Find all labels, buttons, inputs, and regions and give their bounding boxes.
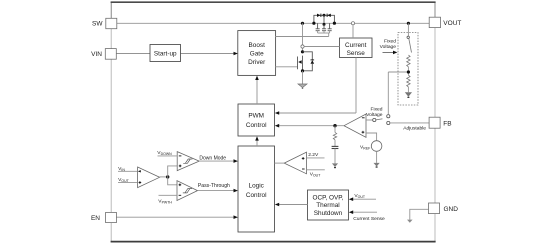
transistor Q1 (isolation FET left) bbox=[316, 23, 320, 31]
block PWM Control bbox=[238, 104, 275, 136]
wire gate link of Q1/Q2 bbox=[318, 31, 330, 37]
svg-text:Down Mode: Down Mode bbox=[199, 155, 226, 161]
svg-text:Sense: Sense bbox=[347, 50, 366, 57]
junction VOUT rail to divider bbox=[407, 22, 410, 25]
wire selector blade bbox=[376, 119, 383, 120]
op-amp error amplifier bbox=[344, 114, 366, 137]
svg-text:Current Sense: Current Sense bbox=[353, 216, 385, 222]
wire VOUT sense stub bbox=[307, 169, 325, 171]
resistor divider R1 bbox=[407, 55, 410, 67]
wire error amp inverting input to selector bbox=[366, 119, 373, 121]
ground (compensation network) bbox=[332, 149, 338, 169]
junction Q3 source bbox=[301, 69, 304, 72]
wire Current Sense to PWM Control bbox=[275, 58, 356, 115]
ground (divider return arrow) bbox=[405, 87, 412, 98]
dashed box internal feedback divider bbox=[398, 33, 418, 106]
wire diode midpoint to SW-VOUT rail bbox=[323, 15, 325, 24]
svg-text:2.2V: 2.2V bbox=[308, 152, 319, 158]
wire OCP block to Logic Control bbox=[275, 203, 308, 207]
wire VIN pin to Start-up bbox=[117, 53, 151, 55]
pin VIN bbox=[91, 49, 116, 60]
wire 2.2V reference stub bbox=[307, 157, 325, 159]
wire Boost Gate Driver to Q1/Q2 gates bbox=[276, 36, 329, 38]
svg-text:GND: GND bbox=[444, 206, 459, 213]
svg-text:Start-up: Start-up bbox=[154, 51, 177, 58]
transistor Q2 (isolation FET right plates) bbox=[328, 23, 332, 31]
svg-text:Adjustable: Adjustable bbox=[403, 126, 426, 132]
wire VPWTH reference to comparator bbox=[159, 194, 178, 196]
wire Q3 source to ground bbox=[302, 71, 304, 84]
svg-text:VOUT: VOUT bbox=[443, 20, 461, 27]
wire VOUT input to difference amp bbox=[118, 181, 138, 183]
wire VOUT rail into divider switch bbox=[407, 23, 409, 36]
wire Logic Control to PWM Control bbox=[255, 136, 259, 146]
node selector pole bbox=[373, 118, 376, 121]
svg-text:FB: FB bbox=[443, 120, 451, 127]
svg-text:Pass-Through: Pass-Through bbox=[198, 183, 230, 189]
wire pass-through comparator to Logic Control bbox=[198, 189, 238, 193]
svg-text:Control: Control bbox=[246, 192, 267, 199]
junction Q1 source bbox=[312, 22, 315, 25]
wire VOUT-rail tap to Current Sense block bbox=[352, 25, 354, 38]
node selector throw fixed bbox=[387, 115, 390, 118]
svg-text:EN: EN bbox=[91, 215, 100, 222]
svg-text:Logic: Logic bbox=[249, 183, 265, 190]
wire fixed-voltage divider tap to selector bbox=[388, 72, 408, 115]
junction midpoint tap bbox=[323, 23, 326, 26]
comparator down-mode detect bbox=[177, 152, 199, 171]
junction SW rail left bbox=[301, 22, 304, 25]
wire to down-mode comparator input bbox=[168, 166, 178, 177]
wire VDOWN reference to comparator bbox=[158, 155, 178, 157]
diode D3 (body diode of Q3) bbox=[303, 52, 315, 71]
wire error amp output to PWM Control bbox=[275, 124, 344, 128]
wire current-sense stub into OCP block bbox=[349, 210, 377, 214]
svg-text:PWM: PWM bbox=[248, 113, 264, 120]
block Logic Control bbox=[238, 146, 275, 232]
svg-text:Voltage: Voltage bbox=[380, 44, 397, 50]
pin GND bbox=[429, 203, 459, 214]
wire GND pin to ground arrow bbox=[410, 209, 429, 219]
pin VOUT bbox=[429, 17, 461, 27]
wire VOUT monitor stub into OCP block bbox=[349, 197, 376, 201]
wire error amp non-inverting input to VREF bbox=[366, 133, 377, 141]
ground (GND pin return arrow) bbox=[407, 220, 413, 223]
pin SW bbox=[92, 18, 117, 28]
switch fixed-voltage enable bbox=[407, 36, 412, 52]
comparator 2.2V VOUT monitor bbox=[284, 152, 306, 174]
ground (power ground under Q3) bbox=[298, 84, 307, 89]
wire sense tap to Current Sense block bbox=[304, 46, 339, 48]
svg-text:Gate: Gate bbox=[250, 51, 264, 58]
junction divider tap bbox=[407, 70, 410, 73]
svg-text:Voltage: Voltage bbox=[366, 112, 383, 118]
node current sense tap on VOUT rail bbox=[351, 22, 354, 25]
transistor Q3 (main boost NMOS switch) bbox=[298, 50, 305, 71]
svg-text:Shutdown: Shutdown bbox=[314, 210, 343, 217]
svg-text:Thermal: Thermal bbox=[316, 202, 339, 209]
wire to pass-through comparator input bbox=[168, 177, 177, 185]
svg-text:Fixed: Fixed bbox=[371, 107, 383, 113]
label Fixed Voltage (selector) bbox=[366, 107, 383, 118]
node selector throw adjustable bbox=[387, 121, 390, 124]
junction difference amp output bbox=[166, 175, 169, 178]
voltage source VREF bbox=[371, 141, 382, 152]
capacitor compensation C bbox=[332, 140, 339, 149]
pin FB bbox=[429, 117, 452, 128]
label Fixed Voltage (divider) bbox=[380, 39, 398, 55]
wire down-mode comparator to Logic Control bbox=[199, 159, 238, 163]
block Start-up bbox=[150, 45, 181, 62]
transistor Q2 (isolation FET middle plates) bbox=[322, 24, 326, 30]
pin EN bbox=[91, 212, 116, 222]
wire VIN input to difference amp bbox=[118, 170, 138, 172]
comparator pass-through detect bbox=[177, 181, 198, 201]
svg-text:VIN: VIN bbox=[91, 51, 102, 58]
wire SW node down to main switch Q3 bbox=[302, 23, 304, 52]
junction Q2 drain bbox=[333, 22, 336, 25]
junction compensation node bbox=[333, 124, 336, 127]
svg-text:Fixed: Fixed bbox=[384, 39, 396, 45]
wire 2.2V comparator to Logic Control bbox=[275, 162, 285, 164]
wire SW pin to power switch node (net SW) bbox=[117, 22, 429, 24]
junction diode midpoint bbox=[323, 14, 326, 17]
node current sense tap on SW leg bbox=[301, 45, 304, 48]
wire Start-up to Boost Gate Driver bbox=[181, 52, 238, 56]
power switch pair Q1/Q2 body-diode loop bbox=[314, 15, 335, 23]
IC boundary rectangle bbox=[111, 2, 436, 242]
svg-text:Boost: Boost bbox=[249, 42, 266, 49]
op-amp VIN/VOUT difference amplifier bbox=[138, 167, 160, 188]
svg-text:OCP, OVP,: OCP, OVP, bbox=[312, 194, 343, 201]
svg-text:Current: Current bbox=[345, 42, 367, 49]
diode D1 (body diode of Q1) bbox=[317, 14, 321, 17]
wire FB pin to selector (adjustable) bbox=[390, 122, 429, 124]
ground (VREF return) bbox=[374, 151, 380, 167]
svg-text:Control: Control bbox=[246, 122, 267, 129]
block U1 Boost Gate Driver bbox=[238, 31, 276, 76]
diode D2 (body diode of Q2) bbox=[327, 14, 331, 17]
wire difference amp output bbox=[160, 176, 168, 178]
wire EN pin to Logic Control bbox=[117, 215, 238, 219]
wire Boost Gate Driver to Q3 gate bbox=[276, 66, 298, 68]
block OCP OVP Thermal Shutdown bbox=[308, 190, 349, 220]
svg-text:SW: SW bbox=[92, 21, 103, 28]
wire PWM Control to Boost Gate Driver bbox=[255, 76, 259, 104]
resistor compensation R bbox=[333, 126, 336, 140]
svg-text:Driver: Driver bbox=[248, 59, 266, 66]
resistor divider R2 bbox=[407, 75, 410, 87]
block Current Sense bbox=[340, 38, 373, 58]
wire divider middle bbox=[407, 67, 409, 75]
